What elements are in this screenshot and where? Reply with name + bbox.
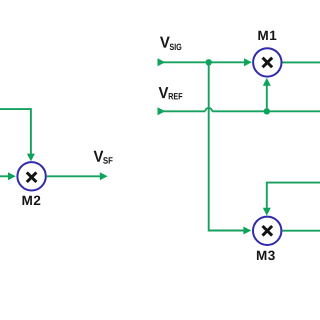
wire VSIG to M3 (vertical drop and horizontal run) <box>209 62 252 234</box>
wire VREF up to M1 <box>263 78 271 111</box>
label VSF <box>94 151 113 164</box>
wire M3 top feed <box>263 183 320 216</box>
wire VSIG <box>158 58 252 66</box>
multiplier M3 <box>253 217 281 245</box>
wire M1 output <box>283 61 320 63</box>
label VSIG <box>160 37 181 50</box>
label M2 <box>22 196 40 205</box>
label M3 <box>257 251 275 261</box>
wire M2 left input <box>0 172 16 180</box>
wire M2 output VSF <box>47 172 108 180</box>
multiplier M2 <box>17 162 45 190</box>
wire M2 top feed <box>0 109 35 161</box>
node VREF junction <box>264 108 270 114</box>
multiplier M1 <box>253 48 281 76</box>
label M1 <box>258 31 276 40</box>
node VSIG junction <box>206 59 212 65</box>
wire M3 output <box>282 230 320 232</box>
wire VREF <box>158 107 320 115</box>
label VREF <box>159 87 183 99</box>
